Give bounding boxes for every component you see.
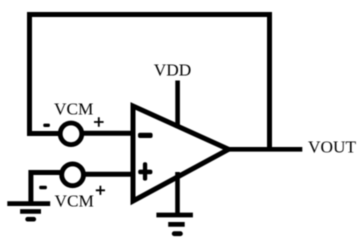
wire feedback right vertical xyxy=(267,12,272,151)
wire feedback left vertical xyxy=(27,12,32,136)
op-amp inverting input minus symbol xyxy=(138,133,153,138)
wire inverting input right segment xyxy=(81,131,136,136)
polarity plus VCM top xyxy=(94,117,104,127)
svg-text:VCM: VCM xyxy=(55,191,94,210)
ground bottom-left xyxy=(7,204,50,220)
op-amp U1 triangle xyxy=(133,106,229,201)
wire VDD supply line xyxy=(175,81,180,129)
svg-text:VDD: VDD xyxy=(154,60,191,79)
wire op-amp ground line xyxy=(175,172,180,213)
wire non-inverting left vertical drop to ground xyxy=(28,170,33,204)
wire output xyxy=(228,147,302,152)
voltage source VCM bottom xyxy=(62,164,84,186)
svg-text:VOUT: VOUT xyxy=(308,137,356,156)
wire feedback top horizontal xyxy=(27,12,272,17)
op-amp non-inverting input plus symbol xyxy=(138,162,152,180)
polarity minus VCM top xyxy=(43,124,50,127)
svg-text:VCM: VCM xyxy=(54,100,93,119)
wire non-inverting left horizontal segment xyxy=(29,170,65,175)
voltage source VCM top xyxy=(60,123,82,145)
polarity minus VCM bottom xyxy=(39,186,47,189)
ground op-amp xyxy=(156,215,193,234)
wire non-inverting input right segment xyxy=(82,172,136,177)
wire inverting input left segment xyxy=(27,131,62,136)
polarity plus VCM bottom xyxy=(96,186,105,195)
